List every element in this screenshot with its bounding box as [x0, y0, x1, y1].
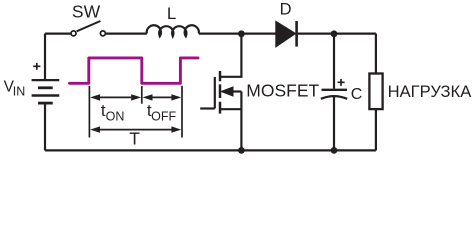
dimension extension line right: [181, 86, 183, 138]
mosfet Q1 drain wire: [220, 34, 241, 77]
mosfet Q1 gate lead: [200, 107, 215, 109]
svg-text:L: L: [167, 4, 176, 23]
svg-text:C: C: [351, 86, 363, 103]
tOFF arrow right head: [171, 94, 181, 100]
gate drive waveform: [70, 58, 199, 83]
junction dot diode-mosfet: [238, 30, 245, 37]
mosfet Q1 channel middle segment: [219, 84, 222, 98]
T arrow shaft: [97, 129, 174, 131]
switch SW right contact: [100, 31, 105, 36]
mosfet Q1 channel top segment: [219, 71, 222, 81]
svg-text:tON: tON: [101, 101, 124, 123]
svg-text:T: T: [129, 129, 140, 149]
wire diode to load corner: [298, 32, 376, 34]
tON arrow right head: [131, 94, 141, 100]
mosfet Q1 body wire: [232, 90, 242, 92]
tON arrow shaft: [97, 96, 134, 98]
mosfet Q1 body arrow: [221, 87, 233, 96]
battery long plate 1: [32, 79, 60, 81]
mosfet Q1 source wire down: [240, 92, 242, 151]
wire top-right corner down to load: [375, 34, 377, 74]
battery short plate 2: [38, 102, 53, 105]
dimension extension line middle: [141, 86, 143, 104]
battery plus sign: [33, 63, 40, 70]
inductor L: [147, 25, 199, 36]
capacitor C top plate: [322, 89, 348, 91]
svg-text:D: D: [280, 1, 292, 19]
capacitor C top leg: [333, 34, 335, 89]
svg-text:tOFF: tOFF: [147, 101, 177, 123]
tON arrow left head: [90, 94, 100, 100]
wire switch to inductor: [106, 32, 147, 34]
capacitor C bottom leg: [333, 97, 335, 150]
battery long plate 2: [32, 94, 60, 97]
battery short plate 1: [38, 86, 53, 89]
tOFF arrow shaft: [150, 96, 173, 98]
capacitor C curved plate: [321, 96, 347, 99]
wire left rail (battery top terminal): [44, 34, 46, 81]
T arrow right head: [171, 126, 181, 132]
mosfet Q1 source stub: [221, 108, 241, 110]
load bottom wire: [375, 109, 377, 150]
svg-text:SW: SW: [72, 2, 101, 22]
mosfet Q1 gate bar: [214, 77, 216, 109]
junction dot mosfet source bottom: [238, 147, 245, 154]
svg-text:НАГРУЗКА: НАГРУЗКА: [388, 82, 473, 101]
svg-text:VIN: VIN: [4, 78, 26, 98]
wire top-left from battery to switch: [45, 32, 71, 34]
T arrow left head: [90, 126, 100, 132]
diode D triangle: [276, 22, 294, 45]
junction dot diode-cap top: [331, 30, 338, 37]
diode D cathode bar: [295, 21, 298, 47]
switch SW lever: [77, 21, 101, 31]
dimension extension line left: [88, 86, 90, 138]
load resistor rectangle: [369, 74, 382, 110]
tOFF arrow left head: [143, 94, 153, 100]
junction dot cap bottom: [331, 147, 338, 154]
wire bottom rail: [45, 149, 376, 151]
mosfet Q1 channel bottom segment: [219, 102, 222, 114]
capacitor C plus sign: [338, 79, 345, 86]
wire battery bottom terminal: [44, 103, 46, 150]
wire inductor to diode: [199, 32, 277, 34]
svg-text:MOSFET: MOSFET: [246, 81, 319, 101]
switch SW left contact: [71, 31, 76, 36]
